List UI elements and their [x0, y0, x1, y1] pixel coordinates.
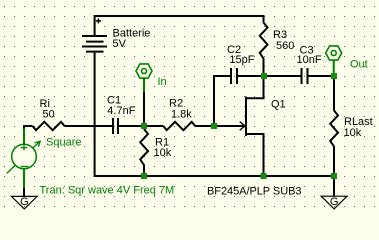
- capacitor C1 plates: [113, 118, 118, 134]
- generator VG1 plus: [21, 145, 27, 151]
- wire: battery negative lead down and ground rail: [95, 53, 334, 176]
- svg-text:G: G: [330, 196, 339, 208]
- junction at RLast bottom rail: [331, 173, 337, 179]
- svg-text:Tran: Sqr wave 4V Freq 7M: Tran: Sqr wave 4V Freq 7M: [40, 184, 175, 196]
- battery + label: [96, 18, 101, 23]
- node Out hexagon: [326, 46, 342, 60]
- svg-text:G: G: [20, 196, 29, 208]
- generator VG1 arrow diagonal: [7, 141, 40, 173]
- ground G1 triangle: [11, 196, 37, 209]
- ground G2 triangle: [321, 196, 347, 209]
- transistor Q1 channel bar: [245, 97, 247, 137]
- junction at R2/C2/gate: [211, 123, 217, 129]
- junction at C3/Out/RLast: [331, 73, 337, 79]
- ground G1 (left) lead: [23, 188, 25, 196]
- junction at C1/R1/R2/In: [141, 123, 147, 129]
- battery B1 plates: [82, 36, 107, 52]
- ground G2 (right) lead: [333, 176, 335, 196]
- capacitor C3 plates: [302, 68, 308, 84]
- node Out stem: [333, 60, 335, 76]
- resistor RLast zigzag: [330, 111, 338, 177]
- svg-text:10k: 10k: [154, 147, 172, 159]
- resistor R3 zigzag: [260, 23, 268, 74]
- generator VG1 minus: [21, 166, 29, 168]
- svg-text:10k: 10k: [344, 127, 362, 139]
- wire: R2 to Q1 gate through junction: [195, 125, 245, 127]
- generator VG1 bottom pin: [23, 169, 25, 189]
- resistor Ri zigzag: [33, 122, 65, 130]
- node Out inner circle: [331, 51, 336, 56]
- wire: In junction to R2: [144, 125, 163, 127]
- svg-text:Out: Out: [350, 59, 368, 71]
- svg-text:5V: 5V: [113, 38, 127, 50]
- svg-text:560: 560: [276, 40, 294, 52]
- svg-text:Q1: Q1: [271, 99, 286, 111]
- junction at Q1 source rail: [261, 173, 267, 179]
- wire: junction to C3 left: [264, 75, 301, 77]
- wire: battery positive lead and top net to R3: [95, 16, 264, 35]
- generator VG1 arrowhead: [35, 141, 41, 147]
- svg-text:Square: Square: [46, 137, 81, 149]
- wire: C3 right to Out junction: [309, 75, 335, 77]
- svg-text:15pF: 15pF: [229, 54, 254, 66]
- wire: In node stem black part: [143, 92, 145, 126]
- svg-text:In: In: [158, 76, 167, 88]
- svg-text:50: 50: [43, 109, 55, 121]
- node In hexagon: [136, 64, 152, 78]
- capacitor C2 plates: [231, 68, 237, 84]
- node In inner circle: [142, 69, 147, 74]
- wire: C2 right to R3 junction: [238, 75, 264, 77]
- wire: main signal net left corner to Ri: [24, 126, 33, 130]
- generator VG1 circle: [12, 144, 37, 169]
- junction at R3/C2/C3/drain: [261, 73, 267, 79]
- Q1 source lead: [247, 134, 264, 176]
- resistor R2 zigzag: [163, 122, 195, 130]
- resistor RLast top lead: [333, 76, 335, 111]
- svg-text:BF245A/PLP SUB3: BF245A/PLP SUB3: [207, 186, 301, 198]
- wire: mid net from gate junction up and to C2: [214, 76, 230, 124]
- svg-text:10nF: 10nF: [297, 54, 322, 66]
- wire: Ri to C1: [65, 125, 113, 127]
- Q1 gate arrowhead: [240, 122, 245, 131]
- node In stem: [143, 78, 145, 92]
- generator VG1 top pin: [23, 129, 25, 144]
- svg-text:4.7nF: 4.7nF: [107, 105, 135, 117]
- junction at R1 bottom rail: [141, 173, 147, 179]
- Q1 drain lead: [247, 76, 264, 98]
- wire: C1 to In junction: [119, 125, 144, 127]
- resistor R1 zigzag: [140, 129, 148, 176]
- svg-text:1.8k: 1.8k: [171, 108, 192, 120]
